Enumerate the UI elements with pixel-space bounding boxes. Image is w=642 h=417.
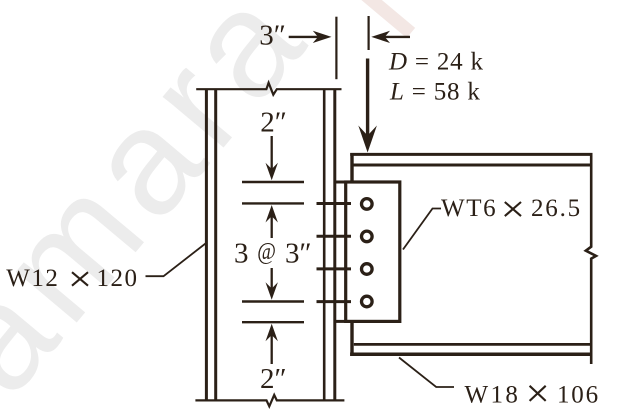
svg-text:2″: 2″ xyxy=(260,107,287,139)
beam right end line with break zigzag xyxy=(586,153,596,364)
svg-text:26.5: 26.5 xyxy=(531,195,582,222)
bolt circle 2 xyxy=(362,231,373,242)
bolt shank line row 4 xyxy=(317,300,352,303)
svg-text:3″: 3″ xyxy=(259,20,286,52)
svg-text:D = 24 k: D = 24 k xyxy=(388,48,484,75)
column top break line with zigzag xyxy=(196,83,341,95)
dim arrow shaft: 3@3 upper (points up to first bolt row) xyxy=(271,212,273,238)
column W12x120: right flange inner line xyxy=(323,89,326,401)
arrowhead down at tee top line xyxy=(266,163,278,181)
arrowhead right (3in dim) xyxy=(313,31,332,43)
load arrowhead xyxy=(358,126,377,153)
extension line C: last bolt row xyxy=(242,300,304,302)
extension line A: tee top level xyxy=(242,181,304,183)
dim tick 2 (load line) xyxy=(368,16,370,50)
column W12x120: right flange outer line xyxy=(333,89,336,401)
svg-text:W18: W18 xyxy=(465,381,521,408)
leader line W12x120 xyxy=(146,244,206,277)
dim arrow shaft: bottom 2in up xyxy=(271,330,273,364)
svg-text:@: @ xyxy=(257,238,276,265)
bolt circle 4 xyxy=(362,296,373,307)
arrowhead left (3in dim) xyxy=(371,31,390,43)
dim arrow shaft: 3@3 lower (points down to last bolt row) xyxy=(271,268,273,292)
column W12x120: left flange outer line xyxy=(205,89,208,401)
times cross of WT6 label xyxy=(505,202,521,216)
svg-text:106: 106 xyxy=(557,381,600,408)
extension line B: first bolt row xyxy=(242,202,304,204)
svg-text:W12: W12 xyxy=(6,265,59,292)
bolt shank line row 3 xyxy=(317,267,352,270)
leader line W18x106 xyxy=(399,358,454,388)
extension line D: tee bottom level xyxy=(242,321,304,323)
times cross of W18 label xyxy=(530,386,546,401)
beam W18x106: bottom flange top line xyxy=(354,343,593,346)
dim arrow shaft: top 2in down xyxy=(271,136,273,172)
WT6x26.5 tee flange rectangle xyxy=(346,182,400,321)
beam W18x106: bottom flange bottom line xyxy=(350,353,592,357)
svg-text:3: 3 xyxy=(234,238,249,270)
load arrow shaft xyxy=(366,59,369,141)
WT tee top edge extension to column flange xyxy=(335,181,346,184)
column bottom break line with zigzag xyxy=(195,395,344,406)
svg-text:120: 120 xyxy=(97,265,139,292)
times cross of W12 label xyxy=(72,272,88,286)
svg-text:WT6: WT6 xyxy=(441,195,497,222)
dim tick 1 (column face) xyxy=(335,17,337,79)
WT stem upper vertical (beam end above tee) xyxy=(350,153,353,183)
arrowhead up at tee bottom line xyxy=(266,324,278,342)
bolt circle 1 xyxy=(362,199,373,210)
svg-text:L = 58 k: L = 58 k xyxy=(389,78,481,105)
column W12x120: left flange inner line xyxy=(214,89,217,401)
WT tee bottom edge extension to column flange xyxy=(335,320,346,323)
bolt circle 3 xyxy=(362,264,373,275)
WT stem lower vertical (below tee to bottom flange) xyxy=(350,320,353,356)
beam W18x106: top flange bottom line xyxy=(352,164,592,167)
bolt shank line row 1 xyxy=(317,202,352,205)
leader line WT6x26.5 xyxy=(403,209,441,250)
arrowhead up at first bolt line xyxy=(266,205,278,223)
bolt shank line row 2 xyxy=(317,235,352,238)
3in dim left-arrow shaft xyxy=(378,36,410,38)
svg-text:3″: 3″ xyxy=(285,238,312,270)
arrowhead down at last bolt line xyxy=(266,282,278,300)
watermark xyxy=(0,0,340,417)
3in dim right-arrow shaft xyxy=(289,36,324,38)
svg-text:2″: 2″ xyxy=(260,363,287,395)
beam W18x106: top flange top line xyxy=(350,153,592,156)
